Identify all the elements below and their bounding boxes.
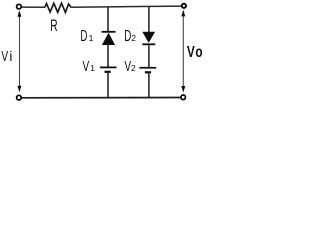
svg-text:2: 2: [131, 63, 136, 73]
svg-text:V: V: [1, 47, 8, 65]
svg-text:V: V: [83, 57, 90, 75]
svg-text:2: 2: [131, 33, 136, 43]
svg-text:V: V: [187, 42, 195, 60]
svg-text:1: 1: [90, 63, 95, 73]
svg-text:D: D: [80, 26, 87, 44]
svg-text:i: i: [9, 49, 12, 64]
svg-text:1: 1: [89, 33, 94, 43]
svg-text:R: R: [50, 15, 57, 34]
svg-text:D: D: [124, 26, 131, 44]
svg-text:o: o: [195, 42, 203, 60]
